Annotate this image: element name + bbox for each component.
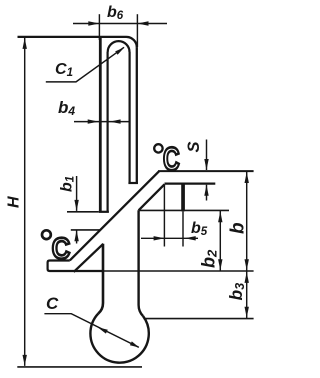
dimension b4 line <box>74 121 129 123</box>
arrowhead b3 top <box>245 272 249 283</box>
arrowhead b6 left <box>88 21 99 25</box>
arrowhead b2 top <box>218 211 222 222</box>
dimension b3 line <box>246 271 248 319</box>
arrowhead b5 right <box>185 236 196 240</box>
arrowhead S up <box>204 185 208 196</box>
extension line left of leg cap for b1 <box>67 211 99 213</box>
arrowhead b1 down <box>74 200 78 211</box>
arrowhead b bottom <box>245 259 249 270</box>
dimension S lower line <box>206 185 208 201</box>
arrowhead C diameter upper-left <box>98 327 108 333</box>
hook left leg bottom cap <box>99 211 109 213</box>
upper flange top edge (extended right for b) <box>158 170 254 172</box>
upper flange bottom edge <box>165 183 216 185</box>
arrowhead C diameter lower-right <box>130 341 139 347</box>
arrowhead b4 left <box>88 119 99 123</box>
stamp symbol degree-C lower <box>42 230 70 264</box>
leader line for C <box>44 314 138 348</box>
svg-text:C: C <box>52 231 70 264</box>
bulb circle arc <box>90 314 148 363</box>
b6 right extension line <box>136 14 138 47</box>
stem left wall <box>98 244 103 314</box>
hook right inner wall <box>129 52 131 183</box>
hook right leg bottom cap <box>128 182 138 184</box>
pocket bottom edge / b2 extension <box>139 209 229 211</box>
svg-text:S: S <box>185 141 203 152</box>
dimension H line <box>24 38 26 366</box>
ledge extension for b1 lower bound <box>71 229 101 231</box>
dimension b1 upper line <box>76 176 78 211</box>
arrowhead H top <box>23 38 27 49</box>
lower flange bottom extension line to the right <box>103 270 254 272</box>
dimension b5 line <box>141 237 198 239</box>
hook inner arc <box>108 41 130 52</box>
arrowhead b2 bottom <box>218 259 222 270</box>
arrowhead b4 right <box>110 119 121 123</box>
b6 left extension line <box>98 14 100 40</box>
profile top edge with hook outer arc <box>18 37 137 48</box>
lower web diagonal upper segment <box>139 184 165 210</box>
stem right wall <box>139 210 143 316</box>
svg-text:C: C <box>46 294 59 313</box>
flange tab rib <box>181 184 185 211</box>
svg-text:H: H <box>6 196 23 208</box>
hook left inner wall <box>106 52 108 212</box>
arrowhead b top <box>245 172 249 183</box>
dimension b1 lower line <box>76 230 78 243</box>
arrowhead b5 left <box>154 236 165 240</box>
b3 lower extension line <box>144 318 254 320</box>
arrowhead H bottom <box>23 355 27 366</box>
dimension S upper line <box>206 140 208 171</box>
upper web diagonal <box>70 171 159 260</box>
arrowhead b6 right <box>138 21 149 25</box>
dimension b2 line <box>219 210 221 271</box>
dimension b6 line <box>73 23 167 25</box>
arrowhead S down <box>204 159 208 170</box>
b5 left extension line <box>163 185 165 247</box>
arrowhead b1 up <box>74 230 78 241</box>
lower web diagonal lower segment <box>74 244 104 272</box>
b5 right extension line under tab <box>182 211 184 246</box>
hook left outer wall <box>99 37 102 212</box>
bottom extension line tangent to bulb <box>17 366 142 368</box>
hook right outer wall <box>136 47 138 183</box>
arrowhead C1 leader <box>115 47 124 54</box>
dimension b line <box>246 171 248 271</box>
arrowhead b3 bottom <box>245 307 249 318</box>
stamp symbol degree-C upper <box>154 141 179 177</box>
svg-text:b: b <box>228 222 249 234</box>
leader line for C1 <box>46 47 124 82</box>
lower flange left end <box>48 261 103 272</box>
svg-text:C: C <box>163 141 180 177</box>
